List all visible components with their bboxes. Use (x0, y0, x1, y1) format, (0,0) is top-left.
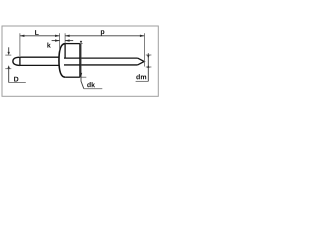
ball/body joint line (19, 57, 21, 65)
dm dimension line (147, 53, 149, 81)
p right arrowhead (140, 35, 145, 37)
svg-text:D: D (14, 76, 19, 83)
dimension line p (65, 35, 144, 37)
k left arrowhead (55, 39, 60, 41)
D leader bottom (8, 69, 10, 83)
body bottom line (20, 64, 60, 66)
svg-text:p: p (100, 29, 104, 36)
extension line mandrel tip (143, 33, 145, 66)
k right arrow tail (65, 40, 73, 42)
dk label underline (84, 88, 103, 90)
mandrel bottom line (64, 64, 138, 66)
p left arrowhead (65, 35, 70, 37)
D top arrowhead (8, 52, 10, 55)
body top line (20, 56, 60, 58)
head flat face (64, 44, 66, 59)
D arrow stub top (8, 47, 10, 52)
extension line head underside (59, 33, 61, 50)
mandrel top line (64, 57, 138, 59)
svg-text:L: L (35, 30, 40, 37)
extension tick D top (5, 54, 11, 56)
plate right edge (79, 44, 81, 78)
mandrel ball cap (13, 57, 20, 65)
extension dk bottom (80, 76, 86, 78)
k right arrowhead (65, 39, 70, 41)
rivet head dome (59, 44, 65, 77)
extension line head top (64, 33, 66, 43)
D bottom arrowhead (8, 65, 10, 68)
svg-text:k: k (47, 42, 51, 50)
dimension line dk (80, 44, 82, 78)
extension line body end (19, 33, 21, 56)
extension tick D bottom (5, 68, 11, 70)
extension tick dm top (146, 54, 152, 56)
svg-text:dm: dm (136, 73, 147, 81)
dk top arrowhead (80, 41, 82, 44)
svg-text:dk: dk (87, 81, 95, 89)
dk leader (81, 77, 84, 89)
dm bottom arrowhead (147, 65, 149, 68)
plate bottom edge (65, 76, 80, 78)
dm label underline (136, 80, 149, 82)
k left arrow tail (52, 40, 60, 42)
plate top edge (65, 43, 80, 45)
dk bottom arrowhead (80, 73, 82, 77)
extension dk top (80, 43, 83, 45)
border frame (2, 26, 158, 96)
dm top arrowhead (147, 55, 149, 58)
dimension line L (20, 35, 60, 37)
extension tick dm bottom (146, 66, 152, 68)
D label underline (9, 82, 26, 84)
L left arrowhead (20, 35, 25, 37)
mandrel point (138, 58, 145, 65)
L right arrowhead (55, 35, 60, 37)
